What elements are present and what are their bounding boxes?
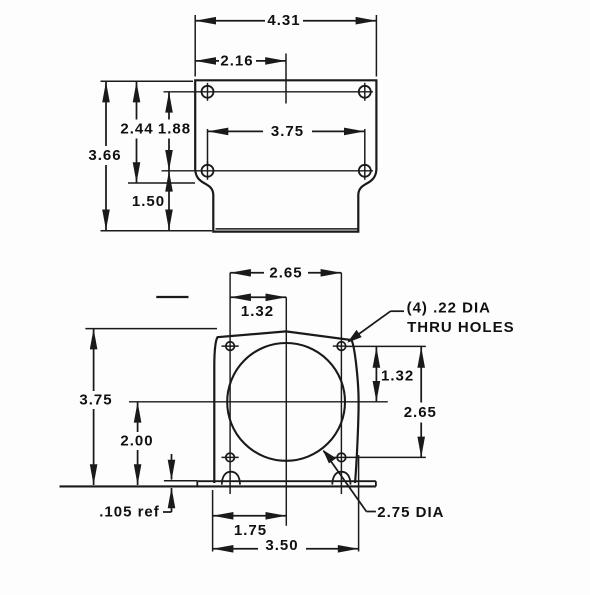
hole bottom-view top-left xyxy=(222,342,239,351)
extension flange top left xyxy=(164,480,197,482)
dimension 1.88 xyxy=(158,92,191,171)
bottom view flange xyxy=(60,481,376,486)
extension line step xyxy=(128,182,195,184)
dimension 3.75 left xyxy=(79,329,112,485)
dimension 1.50 xyxy=(132,171,173,231)
dimension 3.75 top view xyxy=(208,123,365,165)
hole bottom-view top-right xyxy=(333,342,346,351)
left foot arch xyxy=(222,472,240,485)
svg-text:3.66: 3.66 xyxy=(88,147,121,164)
hole bottom-view bottom-right xyxy=(333,453,346,462)
svg-text:2.44: 2.44 xyxy=(120,121,153,138)
svg-text:3.75: 3.75 xyxy=(79,392,112,409)
dimension 1.75 xyxy=(213,512,287,539)
hole lower-right xyxy=(359,162,371,180)
dimension .105 ref lower arrow and leader xyxy=(99,488,175,521)
dimension 2.65 right xyxy=(404,347,437,457)
leader 2.75 DIA xyxy=(323,450,445,521)
right hole column centerline xyxy=(340,273,342,494)
svg-text:2.00: 2.00 xyxy=(120,433,153,450)
svg-text:2.65: 2.65 xyxy=(404,404,437,421)
vertical centerline xyxy=(285,297,287,525)
dimension 1.32 top xyxy=(230,294,286,320)
top view outline xyxy=(195,80,376,231)
svg-text:THRU HOLES: THRU HOLES xyxy=(407,319,514,336)
extension line bottom edge left xyxy=(101,230,213,232)
svg-text:1.32: 1.32 xyxy=(381,368,414,385)
svg-text:1.75: 1.75 xyxy=(234,522,267,539)
svg-text:2.75 DIA: 2.75 DIA xyxy=(377,504,444,521)
right foot arch xyxy=(332,472,350,485)
hole bottom-view bottom-left xyxy=(222,453,239,462)
hole lower-left xyxy=(202,162,214,180)
extension right wall below flange xyxy=(358,455,360,552)
lower hole row centerline xyxy=(162,170,374,172)
svg-text:(4) .22 DIA: (4) .22 DIA xyxy=(407,299,491,316)
top hole row centerline xyxy=(164,91,374,93)
svg-text:2.16: 2.16 xyxy=(220,52,253,69)
dimension 3.50 xyxy=(213,537,359,554)
stray mark xyxy=(156,296,188,298)
dimension 1.32 right xyxy=(373,347,415,402)
bottom view outline xyxy=(214,331,358,483)
hole top-left xyxy=(202,83,214,101)
dimension 4.31 xyxy=(195,12,376,76)
extension top hole row right xyxy=(346,345,426,347)
dimension .105 ref upper arrow xyxy=(168,454,176,481)
svg-text:3.50: 3.50 xyxy=(265,537,298,554)
svg-text:4.31: 4.31 xyxy=(267,12,300,29)
big circle 2.75 dia xyxy=(227,343,345,461)
extension line top edge left xyxy=(101,80,194,82)
extension top of part left xyxy=(85,328,217,330)
dimension 2.65 top xyxy=(230,264,341,281)
svg-text:.105 ref: .105 ref xyxy=(99,504,160,521)
svg-text:1.50: 1.50 xyxy=(132,193,165,210)
dimension 2.16 xyxy=(195,52,286,103)
horizontal centerline xyxy=(129,401,388,403)
left hole column centerline xyxy=(229,273,231,494)
dimension 2.00 left xyxy=(120,402,153,485)
extension bottom hole row right xyxy=(346,456,426,458)
leader (4) .22 DIA THRU HOLES xyxy=(347,299,514,343)
hole top-right xyxy=(359,83,371,101)
dimension 3.66 xyxy=(88,82,121,231)
svg-text:1.88: 1.88 xyxy=(158,121,191,138)
svg-text:1.32: 1.32 xyxy=(241,303,274,320)
svg-text:3.75: 3.75 xyxy=(271,123,304,140)
svg-text:2.65: 2.65 xyxy=(269,264,302,281)
top view inner bottom line xyxy=(216,228,358,230)
dimension 2.44 xyxy=(120,82,153,183)
extension left wall below flange xyxy=(212,490,214,552)
